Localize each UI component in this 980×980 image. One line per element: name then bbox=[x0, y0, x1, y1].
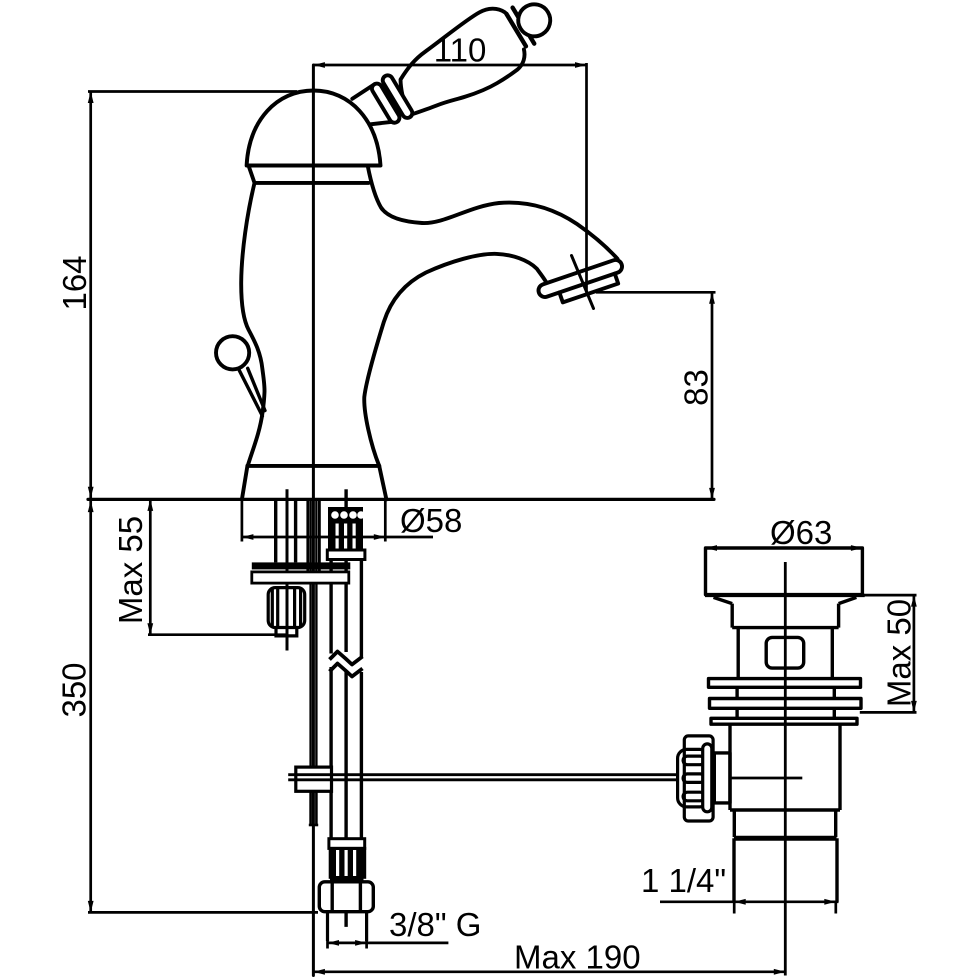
arrow Max55 bottom bbox=[147, 623, 153, 635]
handle collar ring 2 bbox=[381, 73, 414, 119]
body left edge bbox=[241, 183, 264, 466]
flange bottom lip bbox=[705, 594, 865, 597]
boss for knurled nut bbox=[714, 753, 730, 803]
ring plate 1 bbox=[709, 679, 861, 688]
arrow 1 1/4 left bbox=[734, 899, 746, 905]
shank outer left bbox=[306, 499, 309, 583]
mounting flange plate bbox=[252, 572, 349, 583]
svg-text:Max 55: Max 55 bbox=[112, 516, 149, 624]
dim 83 line bbox=[711, 292, 714, 499]
faucet center axis bbox=[312, 65, 315, 976]
hose outer right bbox=[360, 560, 363, 658]
waste neck bbox=[732, 604, 838, 628]
dim 1 1/4 left stub bbox=[733, 903, 736, 914]
arrow O58 right bbox=[374, 534, 386, 540]
hose outer left lower bbox=[329, 667, 332, 839]
fixing nut bbox=[268, 588, 305, 636]
svg-text:Ø58: Ø58 bbox=[400, 502, 462, 539]
arrow O63 right bbox=[851, 545, 863, 551]
lever outline bbox=[382, 1, 535, 131]
countertop line bbox=[88, 498, 714, 501]
arrow 164 bottom bbox=[88, 487, 94, 499]
rod below block bbox=[309, 791, 318, 825]
dome base skirt bbox=[249, 166, 369, 183]
shank outer right bbox=[318, 499, 321, 583]
dim 164/350 line bbox=[89, 92, 92, 913]
dome top of body bbox=[247, 91, 381, 166]
hose joint line bbox=[330, 878, 364, 881]
svg-text:Ø63: Ø63 bbox=[770, 514, 832, 551]
arrow 110 left bbox=[313, 62, 325, 68]
waste flange bbox=[706, 548, 863, 595]
dim Max190 line bbox=[313, 970, 785, 973]
junction heavy line bbox=[734, 836, 837, 841]
connector cap band bbox=[330, 509, 362, 523]
handle collar ring 1 bbox=[370, 82, 401, 125]
dim Max50 line bbox=[913, 595, 916, 712]
aerator bbox=[537, 258, 627, 308]
svg-text:1 1/4": 1 1/4" bbox=[641, 862, 726, 899]
cap dots bbox=[331, 511, 339, 519]
dim Max50 top extension bbox=[864, 594, 917, 597]
hose middle line bbox=[344, 560, 347, 653]
dim 1 1/4 line bbox=[660, 900, 839, 903]
hose bottom braid bbox=[330, 848, 365, 877]
dim 1 1/4 right stub bbox=[834, 903, 837, 914]
tail tube bbox=[328, 912, 367, 941]
nut bottom tab bbox=[276, 628, 297, 636]
arrow 164 top bbox=[88, 92, 94, 104]
dim 3/8 right stub bbox=[365, 940, 368, 949]
dim O58 left extension bbox=[241, 499, 244, 541]
arrow 350 top bbox=[88, 501, 94, 512]
flange bevel left bbox=[714, 597, 733, 603]
svg-text:110: 110 bbox=[434, 32, 487, 69]
arrow 3/8 left bbox=[328, 940, 340, 946]
pull rod thin bbox=[286, 489, 289, 650]
arrow 3/8 right bbox=[355, 940, 367, 946]
ring gap body 2 bbox=[737, 708, 834, 718]
reduced section bbox=[730, 810, 840, 837]
hose break symbol bbox=[330, 652, 363, 677]
pull rod on body bbox=[239, 368, 265, 416]
waste center line bbox=[784, 562, 787, 976]
arrow Max50 top bbox=[911, 595, 917, 607]
arrow 1 1/4 right bbox=[824, 899, 836, 905]
ring plate 3 bbox=[711, 718, 857, 724]
base top line bbox=[247, 464, 379, 468]
waste upper body bbox=[738, 628, 832, 679]
dim Max50 bottom extension bbox=[860, 711, 917, 714]
svg-text:164: 164 bbox=[56, 255, 93, 310]
svg-text:3/8" G: 3/8" G bbox=[389, 906, 481, 943]
hose outer left bbox=[329, 560, 332, 654]
internal lever line bbox=[730, 777, 802, 780]
lever tip bar 2 bbox=[513, 8, 535, 44]
aerator flow axis tick bbox=[572, 256, 594, 309]
dim 350 bottom extension bbox=[88, 911, 318, 914]
ball knob bbox=[512, 0, 556, 42]
arrow Max55 top bbox=[147, 499, 153, 511]
supply pipe line b bbox=[294, 499, 297, 562]
ring gap body 1 bbox=[737, 687, 834, 698]
arrow O63 left bbox=[706, 545, 718, 551]
dim 110 line bbox=[313, 64, 586, 67]
supply pipe line a bbox=[274, 499, 277, 562]
hose outer right lower bbox=[360, 672, 363, 839]
dim O58 line bbox=[242, 536, 433, 539]
pull rod to linkage: clamp block bbox=[296, 767, 332, 791]
tailpipe bbox=[734, 838, 837, 902]
dim Max55 line bbox=[149, 499, 152, 634]
hose middle line lower bbox=[344, 672, 347, 927]
arrow 350 bottom bbox=[88, 901, 94, 913]
dim 110 right extension bbox=[585, 63, 588, 292]
arrow O58 left bbox=[242, 534, 254, 540]
dim 3/8 left stub bbox=[326, 940, 329, 949]
dim 83 top extension bbox=[596, 291, 716, 294]
arrow Max190 right bbox=[774, 969, 786, 975]
knurled nut bbox=[678, 736, 714, 821]
svg-text:Max 50: Max 50 bbox=[881, 599, 918, 707]
arrow 83 top bbox=[709, 292, 715, 304]
handle lever assembly bbox=[366, 0, 566, 140]
hose middle line upper bbox=[344, 489, 347, 508]
dim Max55 bottom extension bbox=[148, 633, 286, 636]
svg-text:83: 83 bbox=[678, 369, 715, 406]
svg-text:Max 190: Max 190 bbox=[514, 939, 641, 976]
pull rod knob bbox=[216, 336, 249, 369]
lever tip bar 1 bbox=[506, 14, 526, 47]
connector collar bbox=[327, 550, 365, 560]
braid slits bbox=[336, 524, 339, 549]
flange bevel right bbox=[839, 597, 857, 603]
ring plate 2 bbox=[710, 699, 862, 709]
rod tube right bbox=[315, 499, 317, 767]
arrow Max50 bottom bbox=[911, 701, 917, 713]
horizontal linkage rod bbox=[288, 775, 678, 780]
arrow Max190 left bbox=[313, 969, 325, 975]
dim O63 line bbox=[706, 547, 863, 550]
hose bottom collar bbox=[329, 839, 365, 849]
spout top curve bbox=[368, 166, 618, 258]
dim 164 top extension bbox=[88, 90, 297, 93]
base flare left bbox=[242, 466, 248, 500]
rod tube left bbox=[309, 499, 311, 767]
base flare right bbox=[379, 466, 386, 500]
spout bottom curve into body right edge bbox=[364, 254, 546, 466]
waste lower body bbox=[730, 724, 840, 810]
svg-text:350: 350 bbox=[56, 662, 93, 717]
arrow 110 right bbox=[575, 62, 587, 68]
square hole bbox=[766, 637, 804, 668]
mounting washer (thick bar) bbox=[252, 562, 350, 569]
arrows bbox=[88, 62, 917, 975]
dim O58 right extension bbox=[384, 499, 387, 541]
arrow 83 bottom bbox=[709, 488, 715, 500]
dim 3/8 line bbox=[328, 942, 449, 945]
handle neck bbox=[352, 84, 392, 126]
hex nut 3/8 bbox=[319, 882, 373, 912]
hose top connector (braided fitting) bbox=[327, 509, 365, 560]
connector braid body bbox=[330, 522, 362, 550]
